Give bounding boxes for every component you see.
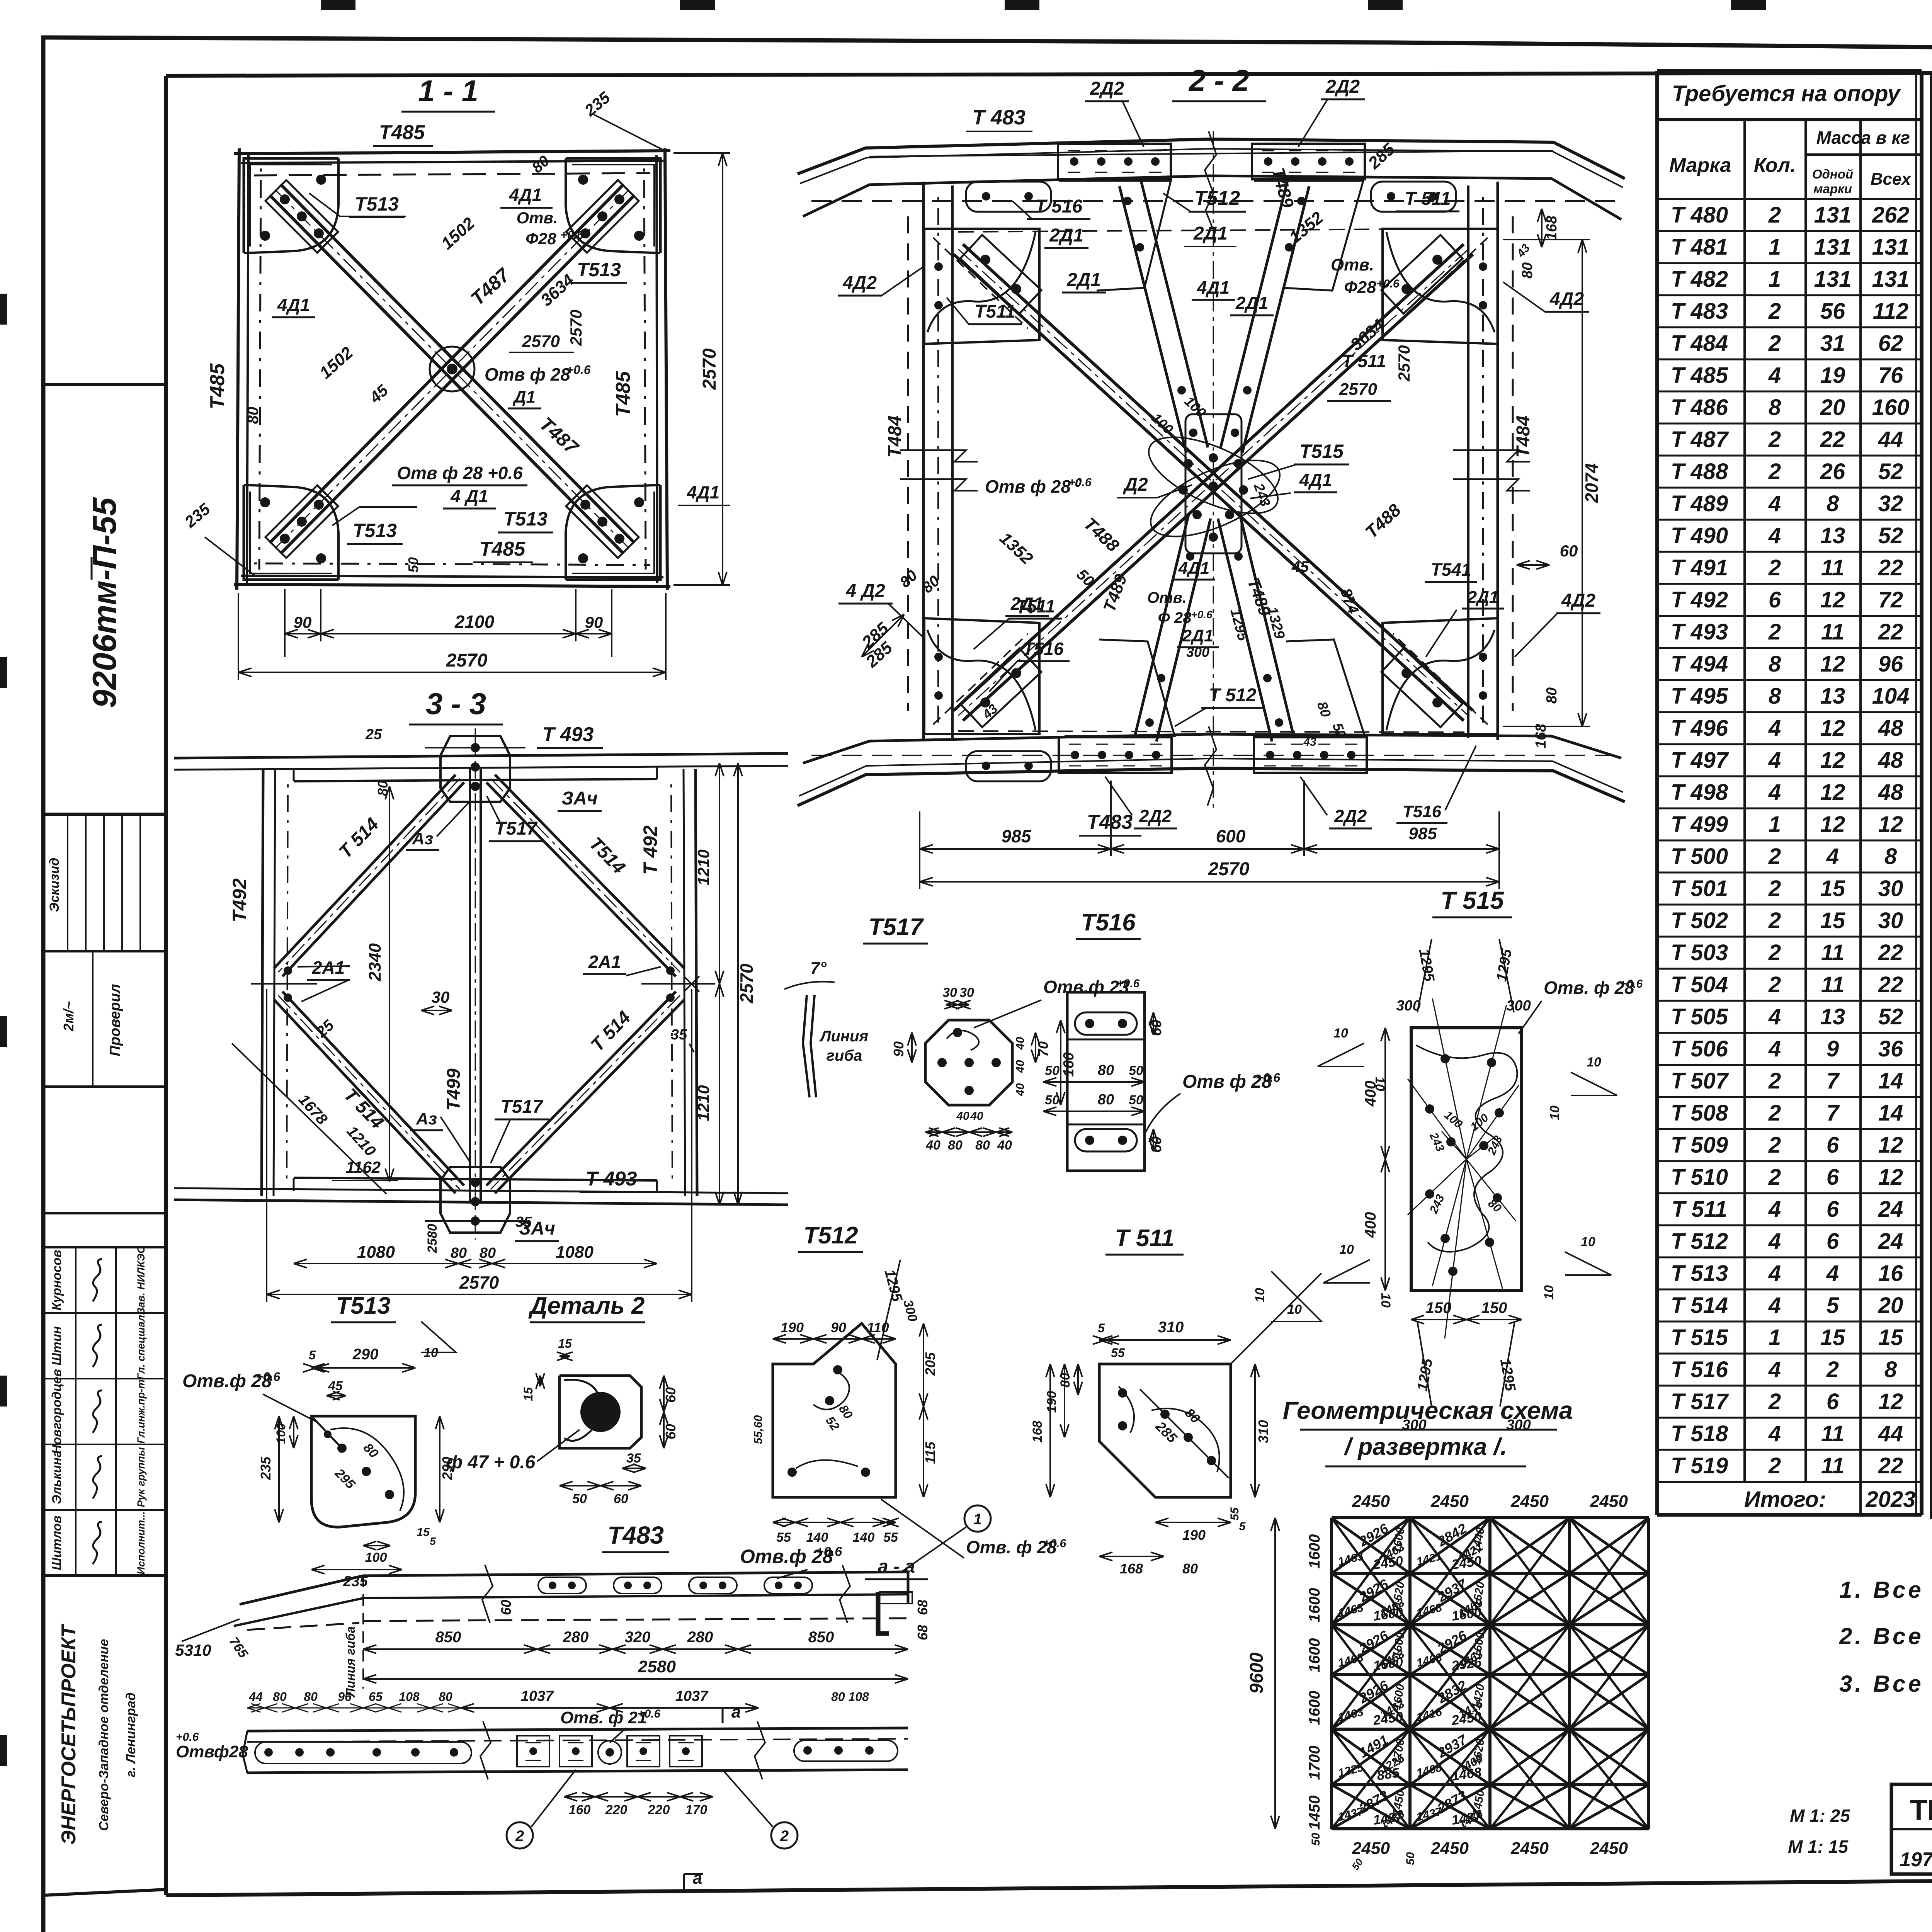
svg-text:2А1: 2А1 [312, 957, 345, 978]
svg-text:10: 10 [1548, 1105, 1562, 1120]
svg-text:6: 6 [1827, 1229, 1839, 1254]
svg-text:2Д1: 2Д1 [1066, 270, 1101, 290]
svg-text:4: 4 [1768, 1197, 1781, 1222]
svg-text:6: 6 [1827, 1197, 1839, 1222]
trebuetsya row T491 [1657, 551, 1922, 553]
svg-text:15: 15 [1878, 1325, 1903, 1350]
svg-text:4: 4 [1768, 1036, 1781, 1061]
svg-text:Т 501: Т 501 [1671, 876, 1728, 901]
svg-text:2Д1: 2Д1 [1193, 223, 1228, 244]
svg-text:7: 7 [1827, 1100, 1840, 1126]
svg-text:11: 11 [1821, 619, 1844, 645]
svg-text:4Д2: 4Д2 [1549, 289, 1584, 310]
geometric schema grid [1330, 1518, 1333, 1829]
svg-text:80: 80 [480, 1245, 496, 1261]
svg-text:ЗАч: ЗАч [561, 788, 598, 809]
detail T511 slope triangle [1271, 1271, 1321, 1321]
svg-text:Т492: Т492 [229, 878, 250, 922]
svg-text:Т 505: Т 505 [1671, 1004, 1728, 1029]
svg-text:8: 8 [1769, 395, 1781, 420]
svg-text:2: 2 [1768, 972, 1781, 997]
svg-text:22: 22 [1878, 619, 1903, 645]
svg-text:Т512: Т512 [803, 1222, 858, 1249]
view 2-2 main diagonal b [954, 244, 1464, 711]
svg-text:Ф28: Ф28 [526, 230, 556, 248]
view 1-1 chord T485 bottom [234, 584, 670, 587]
svg-text:2: 2 [1768, 427, 1781, 452]
svg-text:65: 65 [369, 1690, 383, 1704]
svg-text:+0.6: +0.6 [1620, 978, 1643, 990]
svg-text:14: 14 [1878, 1100, 1903, 1126]
svg-text:4: 4 [1768, 491, 1781, 516]
svg-text:2450: 2450 [1430, 1839, 1469, 1858]
svg-text:Т 512: Т 512 [1671, 1229, 1728, 1254]
svg-text:7°: 7° [810, 959, 827, 978]
svg-text:40: 40 [1014, 1037, 1027, 1050]
view 1-1 dim 235 top right [594, 114, 665, 151]
scan edge marks top [321, 0, 355, 10]
svg-text:ТК: ТК [1910, 1794, 1932, 1826]
svg-text:280: 280 [563, 1629, 589, 1646]
svg-text:Эскизид: Эскизид [47, 858, 62, 912]
view 2-2 centre bolt cluster [1138, 422, 1288, 529]
trebuetsya row T490 [1657, 519, 1922, 521]
svg-text:15: 15 [521, 1387, 535, 1401]
detail T517 dims [946, 1004, 957, 1005]
svg-text:10: 10 [1253, 1288, 1267, 1303]
svg-text:150: 150 [1426, 1299, 1452, 1316]
svg-text:2570: 2570 [1339, 380, 1377, 399]
view 2-2 centre axis [1213, 131, 1214, 808]
svg-text:+0.6: +0.6 [1117, 977, 1140, 990]
svg-text:4Д2: 4Д2 [1561, 590, 1595, 611]
svg-text:1080: 1080 [556, 1243, 594, 1262]
trebuetsya row T505 [1657, 1000, 1922, 1002]
svg-text:Т513: Т513 [355, 193, 399, 215]
svg-text:850: 850 [435, 1629, 461, 1646]
svg-text:Т 511: Т 511 [1115, 1225, 1174, 1252]
svg-text:Рук группы: Рук группы [135, 1447, 147, 1507]
title block TK box [1891, 1784, 1932, 1874]
T483 circled 2 right [771, 1822, 798, 1849]
svg-text:300: 300 [1506, 998, 1531, 1014]
view 1-1 diagonal T487 b [270, 184, 624, 543]
svg-text:Т 515: Т 515 [1671, 1325, 1728, 1350]
svg-text:26: 26 [1820, 459, 1845, 484]
svg-text:8: 8 [1769, 684, 1781, 709]
svg-text:5310: 5310 [175, 1641, 211, 1659]
svg-text:Т 500: Т 500 [1671, 844, 1728, 869]
svg-text:131: 131 [1814, 267, 1852, 292]
svg-text:+0.6: +0.6 [1376, 277, 1400, 290]
svg-text:22: 22 [1878, 555, 1903, 580]
view 2-2 gusset TL slot plate T516 [966, 182, 1051, 212]
svg-text:6: 6 [1769, 587, 1781, 612]
svg-text:2074: 2074 [1582, 463, 1602, 503]
svg-text:Т511: Т511 [975, 301, 1015, 322]
svg-text:4Д1: 4Д1 [687, 482, 719, 502]
svg-text:115: 115 [922, 1441, 938, 1464]
trebuetsya row T518 [1657, 1417, 1922, 1419]
svg-text:2: 2 [1768, 1389, 1781, 1414]
svg-text:52: 52 [1878, 523, 1903, 548]
svg-text:168: 168 [1544, 215, 1560, 240]
svg-text:1975г: 1975г [1900, 1849, 1932, 1871]
view 2-2 bottom chord break mark [1205, 726, 1216, 806]
svg-text:35: 35 [515, 1214, 532, 1230]
svg-text:290: 290 [352, 1346, 379, 1363]
svg-text:4: 4 [1768, 716, 1781, 741]
svg-text:2450: 2450 [1430, 1492, 1469, 1511]
svg-text:60: 60 [663, 1424, 679, 1439]
view 2-2 left column T484 [922, 182, 925, 740]
stamp org block energosetproekt [43, 1889, 166, 1895]
view 1-1 corner gussets [244, 158, 338, 253]
svg-text:Т485: Т485 [612, 371, 634, 417]
svg-text:4: 4 [1768, 748, 1781, 773]
svg-text:Зав. НИЛКЭС: Зав. НИЛКЭС [135, 1246, 147, 1314]
svg-text:80: 80 [375, 781, 391, 796]
view 2-2 top chord bolt plates [1058, 144, 1171, 179]
svg-text:12: 12 [1878, 812, 1903, 837]
trebuetsya row T510 [1657, 1160, 1922, 1162]
svg-text:30: 30 [959, 985, 974, 1000]
svg-text:985: 985 [1002, 826, 1032, 846]
view 2-2 trapezoid plate T512 top [1059, 181, 1171, 291]
svg-text:Т 482: Т 482 [1671, 267, 1728, 292]
view 1-1 dim 90 left bottom [284, 589, 286, 657]
trebuetsya row T500 [1657, 840, 1922, 842]
svg-text:52: 52 [1878, 459, 1903, 484]
svg-text:Т499: Т499 [444, 1068, 464, 1111]
detail 2 dims [560, 1355, 570, 1357]
detail T517 octagon plate [925, 1020, 1012, 1105]
svg-text:Т 493: Т 493 [1671, 619, 1728, 645]
svg-text:50: 50 [1045, 1093, 1060, 1107]
svg-text:2570: 2570 [736, 963, 757, 1003]
svg-text:Шитлов: Шитлов [49, 1515, 64, 1570]
svg-text:/ развертка /.: / развертка /. [1344, 1434, 1507, 1460]
svg-text:2570: 2570 [567, 310, 585, 346]
svg-text:96: 96 [1878, 651, 1903, 677]
svg-text:31: 31 [1820, 331, 1845, 356]
svg-text:Т 491: Т 491 [1671, 555, 1728, 580]
svg-text:Т513: Т513 [336, 1293, 390, 1319]
svg-text:Т 492: Т 492 [639, 825, 661, 875]
trebuetsya row T489 [1657, 487, 1922, 489]
svg-text:2580: 2580 [425, 1224, 440, 1253]
svg-text:40: 40 [1014, 1083, 1027, 1097]
svg-text:4: 4 [1768, 1004, 1781, 1029]
svg-text:13: 13 [1820, 523, 1845, 548]
trebuetsya row T482 [1657, 262, 1922, 264]
svg-text:2: 2 [1768, 1165, 1781, 1190]
svg-text:Т 519: Т 519 [1671, 1453, 1728, 1478]
svg-text:50: 50 [1045, 1063, 1060, 1078]
view 3-3 right vertex joint [666, 966, 675, 975]
svg-text:2450: 2450 [1590, 1839, 1628, 1858]
svg-text:Т 512: Т 512 [1209, 685, 1257, 706]
svg-text:5: 5 [1239, 1520, 1246, 1533]
svg-text:68: 68 [915, 1600, 930, 1615]
svg-text:Т516: Т516 [1023, 639, 1064, 659]
svg-text:600: 600 [1216, 826, 1246, 846]
svg-text:+0.6: +0.6 [1191, 609, 1213, 621]
svg-text:Т 493: Т 493 [586, 1168, 637, 1190]
svg-text:4: 4 [1768, 780, 1781, 805]
view 1-1 dim 2570 right [722, 153, 723, 585]
detail T515 bottom dims [1411, 1319, 1466, 1320]
svg-text:60: 60 [1560, 542, 1578, 560]
svg-text:15: 15 [1820, 908, 1845, 933]
svg-text:а - а: а - а [878, 1556, 915, 1577]
svg-text:1 - 1: 1 - 1 [418, 74, 478, 108]
svg-text:Отв.: Отв. [1331, 255, 1374, 274]
svg-text:Т 488: Т 488 [1671, 459, 1728, 484]
svg-text:Т 480: Т 480 [1671, 202, 1728, 228]
svg-text:15: 15 [1820, 1325, 1845, 1350]
svg-text:12: 12 [1820, 780, 1845, 805]
detail 2 plate [560, 1376, 641, 1448]
detail T512 plate [773, 1323, 896, 1497]
view 2-2 right column break [1453, 450, 1530, 462]
svg-text:Т 514: Т 514 [1671, 1293, 1728, 1318]
svg-text:60: 60 [663, 1387, 679, 1403]
svg-text:1700: 1700 [1306, 1746, 1323, 1780]
scan edge marks left [0, 294, 7, 325]
svg-text:30: 30 [432, 988, 450, 1006]
svg-text:Т484: Т484 [885, 415, 905, 457]
detail T516 slot bottom [1075, 1129, 1137, 1151]
view 2-2 trapezoid plate T512 bottom [1065, 639, 1175, 736]
svg-text:50: 50 [1404, 1852, 1417, 1865]
svg-text:43: 43 [1303, 736, 1316, 748]
svg-text:Т516: Т516 [1403, 802, 1442, 821]
svg-text:220: 220 [605, 1803, 628, 1817]
svg-text:310: 310 [1255, 1420, 1271, 1443]
svg-text:10: 10 [1378, 1293, 1393, 1308]
svg-text:12: 12 [1878, 1133, 1903, 1158]
view 2-2 corner gusset top-left [924, 229, 1039, 344]
svg-text:4 Д1: 4 Д1 [450, 486, 488, 506]
svg-text:Т517: Т517 [495, 818, 538, 839]
svg-text:2Д1: 2Д1 [1235, 293, 1268, 313]
svg-text:1600: 1600 [1306, 1588, 1323, 1622]
svg-text:Штин: Штин [49, 1326, 64, 1366]
stamp strip divider y=995 [43, 383, 166, 386]
svg-text:40: 40 [997, 1138, 1012, 1153]
svg-text:Т485: Т485 [379, 121, 425, 144]
svg-text:300: 300 [1396, 998, 1420, 1014]
T483 upper beam break [482, 1565, 493, 1623]
svg-text:80: 80 [1182, 1561, 1198, 1577]
svg-text:Аз: Аз [412, 829, 433, 848]
trebuetsya row T483 [1657, 294, 1922, 296]
svg-text:80: 80 [245, 407, 262, 424]
svg-text:60: 60 [498, 1600, 514, 1615]
svg-text:Т 506: Т 506 [1671, 1036, 1728, 1061]
svg-text:2. Все обрезы уголков 35мм: 2. Все обрезы уголков 35мм [1839, 1623, 1932, 1649]
trebuetsya row T513 [1657, 1257, 1922, 1259]
view 2-2 right column T484 [1497, 182, 1499, 740]
svg-text:Т 510: Т 510 [1671, 1165, 1728, 1190]
svg-text:15: 15 [417, 1526, 430, 1539]
svg-text:131: 131 [1872, 235, 1910, 260]
svg-text:1037: 1037 [675, 1688, 709, 1704]
svg-text:Т 494: Т 494 [1671, 651, 1728, 677]
svg-text:32: 32 [1878, 491, 1903, 516]
svg-text:Итого:: Итого: [1744, 1487, 1826, 1512]
svg-text:280: 280 [687, 1629, 713, 1646]
svg-text:2: 2 [1768, 908, 1781, 933]
svg-text:48: 48 [1878, 716, 1903, 741]
svg-text:80: 80 [1544, 687, 1560, 704]
svg-text:50: 50 [1129, 1063, 1143, 1078]
svg-text:4: 4 [1768, 1293, 1781, 1318]
svg-text:12: 12 [1820, 651, 1845, 677]
T483 lower beam right bolts [803, 1746, 812, 1755]
svg-text:Одной: Одной [1812, 167, 1853, 181]
geometric schema left dim 9600 [1274, 1518, 1276, 1829]
svg-text:168: 168 [1533, 723, 1549, 748]
svg-text:1450: 1450 [1306, 1796, 1323, 1830]
svg-text:15: 15 [558, 1337, 572, 1350]
svg-text:90: 90 [294, 613, 312, 631]
svg-text:Требуется на опору: Требуется на опору [1672, 81, 1901, 106]
svg-text:16: 16 [1878, 1261, 1903, 1286]
svg-text:160: 160 [1872, 395, 1910, 420]
detail T511 bottom dims [1099, 1556, 1164, 1557]
svg-text:90: 90 [891, 1041, 906, 1057]
svg-text:8: 8 [1769, 651, 1781, 677]
svg-text:20: 20 [1820, 395, 1845, 420]
svg-text:4: 4 [1826, 844, 1839, 869]
svg-text:Т 484: Т 484 [1671, 331, 1728, 356]
svg-text:Отвф28: Отвф28 [176, 1742, 248, 1761]
svg-text:1: 1 [1769, 812, 1781, 837]
svg-text:2340: 2340 [366, 943, 384, 981]
svg-text:262: 262 [1872, 202, 1910, 228]
trebuetsya row T506 [1657, 1032, 1922, 1034]
svg-text:100: 100 [365, 1550, 387, 1565]
svg-text:2Д1: 2Д1 [1467, 588, 1499, 607]
svg-text:Отв ф 28: Отв ф 28 [485, 364, 570, 384]
svg-text:50: 50 [572, 1492, 587, 1506]
svg-text:Т513: Т513 [503, 508, 548, 530]
detail T515 slope triangles [1318, 1043, 1364, 1066]
view 3-3 left vertex joint [284, 966, 292, 975]
svg-text:320: 320 [625, 1629, 651, 1646]
svg-text:10: 10 [1587, 1055, 1601, 1070]
svg-text:Д2: Д2 [1122, 474, 1148, 495]
trebuetsya row T488 [1657, 455, 1922, 457]
svg-text:1: 1 [1769, 235, 1781, 260]
svg-text:50: 50 [405, 557, 421, 573]
svg-text:2 - 2: 2 - 2 [1188, 63, 1249, 97]
svg-text:30: 30 [1878, 908, 1903, 933]
svg-text:80 108: 80 108 [831, 1690, 869, 1704]
svg-text:131: 131 [1872, 267, 1910, 292]
svg-text:2: 2 [1768, 459, 1781, 484]
svg-text:2: 2 [1768, 555, 1781, 580]
view 3-3 bottom gusset T517 [440, 1167, 510, 1233]
svg-text:Т 517: Т 517 [1671, 1389, 1729, 1414]
svg-text:40: 40 [925, 1138, 940, 1153]
view 1-1 dim 2100 [321, 633, 576, 634]
svg-text:Т485: Т485 [206, 363, 229, 410]
svg-text:гиба: гиба [827, 1047, 862, 1064]
svg-text:90: 90 [831, 1320, 846, 1335]
svg-text:Т 498: Т 498 [1671, 780, 1728, 805]
svg-text:24: 24 [1878, 1229, 1903, 1254]
svg-text:2: 2 [1768, 1133, 1781, 1158]
svg-text:131: 131 [1814, 202, 1852, 228]
svg-text:11: 11 [1821, 1421, 1844, 1446]
trebuetsya itogo row [1657, 1481, 1922, 1483]
svg-text:850: 850 [808, 1629, 834, 1646]
detail T511 diagonal dim [1140, 1389, 1229, 1478]
svg-text:Марка: Марка [1669, 154, 1731, 177]
svg-text:Т 492: Т 492 [1671, 587, 1728, 612]
svg-text:Отв.: Отв. [516, 209, 558, 227]
trebuetsya row T499 [1657, 808, 1922, 810]
trebuetsya row T498 [1657, 776, 1922, 777]
svg-text:Т513: Т513 [353, 520, 397, 541]
svg-text:5: 5 [309, 1348, 316, 1362]
view 2-2 gusset TL splice 2D1 [960, 235, 1041, 314]
svg-text:4Д1: 4Д1 [1299, 470, 1332, 490]
stamp band columns [43, 950, 166, 952]
view 2-2 strut T489 upper-left [1119, 186, 1186, 453]
svg-text:4 Д2: 4 Д2 [845, 581, 885, 601]
svg-text:2: 2 [1768, 1100, 1781, 1126]
view 2-2 centre plate T515 [1185, 414, 1242, 553]
svg-text:10: 10 [1581, 1235, 1595, 1249]
svg-text:108: 108 [399, 1690, 420, 1704]
T483 circled 1 [964, 1505, 991, 1532]
view 3-3 right chord T492 [696, 769, 697, 1196]
svg-text:Отв ф 28 +0.6: Отв ф 28 +0.6 [397, 463, 523, 483]
svg-text:60: 60 [614, 1492, 628, 1506]
trebuetsya row T516 [1657, 1353, 1922, 1355]
svg-text:Отв.ф 23: Отв.ф 23 [1043, 977, 1129, 997]
svg-text:30: 30 [1878, 876, 1903, 901]
svg-text:35: 35 [671, 1027, 687, 1043]
svg-text:Масса в кг: Масса в кг [1816, 128, 1910, 148]
svg-text:Т516: Т516 [1081, 909, 1136, 936]
svg-text:1600: 1600 [1306, 1691, 1323, 1725]
trebuetsya row T495 [1657, 679, 1922, 681]
svg-text:Т 503: Т 503 [1671, 940, 1728, 965]
svg-text:10: 10 [1542, 1285, 1556, 1300]
svg-text:2570: 2570 [699, 348, 720, 390]
svg-text:1: 1 [1769, 267, 1781, 292]
svg-text:Т 516: Т 516 [1035, 196, 1083, 217]
svg-text:2Д1: 2Д1 [1049, 225, 1083, 246]
svg-text:2570: 2570 [446, 650, 488, 671]
svg-text:35: 35 [626, 1451, 641, 1466]
table trebuetsya na oporu [1657, 69, 1922, 73]
view 2-2 bottom chord bolt plates [1059, 737, 1172, 773]
svg-text:400: 400 [1362, 1212, 1379, 1238]
detail T513 dims [311, 1367, 316, 1369]
svg-text:44: 44 [1878, 1421, 1903, 1446]
view 2-2 dims right [1582, 240, 1583, 726]
trebuetsya row T509 [1657, 1128, 1922, 1130]
svg-text:1210: 1210 [694, 849, 713, 885]
svg-text:44: 44 [248, 1690, 263, 1704]
svg-text:Т 513: Т 513 [1671, 1261, 1728, 1286]
